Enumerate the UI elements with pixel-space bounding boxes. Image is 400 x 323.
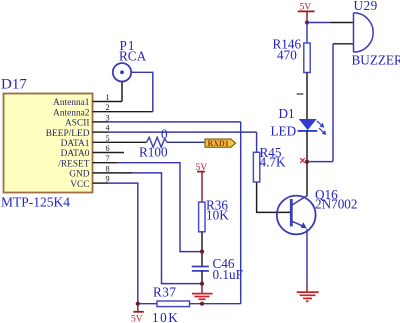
wire pin4 BEEP/LED horizontal bbox=[108, 131, 257, 133]
junction dot bottom wire at ground column bbox=[200, 302, 204, 306]
wire 5V node to R37 left bbox=[138, 303, 157, 305]
LED light emission arrows bbox=[317, 121, 327, 135]
pin 8 GND bbox=[69, 164, 132, 179]
svg-text:4.7K: 4.7K bbox=[260, 155, 286, 170]
junction dot LED/buzzer/drain node bbox=[305, 160, 309, 164]
resistor R100 zigzag bbox=[139, 137, 168, 159]
svg-text:4: 4 bbox=[106, 124, 110, 133]
svg-text:GND: GND bbox=[69, 170, 90, 180]
pin 4 BEEP/LED bbox=[46, 124, 110, 139]
junction dot 5V/buzzer/R146 bbox=[305, 20, 309, 24]
lead R45 bottom to Q16 base (black) bbox=[257, 182, 291, 212]
wire buzzer bottom column vertical bbox=[332, 44, 334, 162]
wire bottom right of R37 bbox=[190, 303, 241, 305]
svg-text:DATA1: DATA1 bbox=[61, 139, 90, 149]
svg-text:1: 1 bbox=[106, 93, 110, 102]
resistor R36 body bbox=[199, 198, 229, 232]
svg-text:/RESET: /RESET bbox=[58, 159, 90, 169]
buzzer top pin (black) bbox=[330, 22, 354, 24]
diode D1 LED symbol bbox=[271, 106, 318, 139]
pin 1 Antenna1 bbox=[53, 93, 122, 108]
pin 7 /RESET bbox=[58, 154, 117, 169]
svg-text:3: 3 bbox=[106, 113, 110, 122]
power 5V mid (for R36) bbox=[196, 162, 208, 202]
svg-text:9: 9 bbox=[106, 175, 110, 184]
svg-text:0: 0 bbox=[161, 127, 168, 142]
pin 9 VCC bbox=[70, 175, 109, 190]
no-ERC marker (red cross) bbox=[300, 158, 305, 163]
buzzer U29 symbol bbox=[352, 0, 400, 68]
svg-text:D1: D1 bbox=[279, 106, 295, 121]
junction dot /RESET node bbox=[200, 250, 204, 254]
transistor Q16 bbox=[277, 187, 358, 234]
svg-text:2N7002: 2N7002 bbox=[315, 197, 358, 212]
svg-text:5: 5 bbox=[106, 134, 110, 143]
wire pin3 vertical down to bottom bbox=[240, 122, 242, 304]
wire pin4 down to R45 bbox=[256, 132, 258, 152]
lead R146 bottom to LED anode (black) bbox=[306, 73, 308, 120]
wire 5V node to buzzer top pin bbox=[307, 22, 330, 24]
net label RXD1 flag bbox=[205, 139, 236, 148]
svg-text:0.1uF: 0.1uF bbox=[213, 267, 243, 282]
wire pin3 ASCII horizontal bbox=[108, 121, 241, 123]
wire Q16 emitter down to ground bbox=[306, 229, 308, 285]
svg-text:6: 6 bbox=[106, 144, 110, 153]
capacitor C46 bbox=[192, 256, 235, 271]
pin 2 Antenna2 bbox=[53, 103, 153, 118]
svg-text:LED: LED bbox=[271, 124, 297, 139]
resistor R146 body bbox=[273, 36, 311, 72]
svg-text:470: 470 bbox=[277, 48, 297, 63]
pin 6 DATA0 (unconnected stub) bbox=[61, 144, 124, 159]
wire 5V node down to R146 bbox=[306, 23, 308, 44]
ground symbol under Q16 bbox=[297, 285, 319, 302]
svg-text:BUZZER: BUZZER bbox=[352, 53, 400, 68]
svg-text:BEEP/LED: BEEP/LED bbox=[46, 129, 90, 139]
svg-text:U29: U29 bbox=[354, 0, 378, 13]
svg-text:7: 7 bbox=[106, 154, 110, 163]
power 5V bottom left bbox=[131, 304, 144, 323]
ground symbol under C46 bbox=[192, 284, 213, 300]
wire pin2 to RCA right side bbox=[132, 72, 153, 111]
lead R36 bottom to C46 top (black) bbox=[201, 232, 203, 266]
svg-text:8: 8 bbox=[106, 164, 110, 173]
wire pin9 VCC down to 5V node bbox=[108, 183, 138, 304]
lead C46 bottom to ground node (black) bbox=[201, 271, 203, 284]
wire pin1 to RCA (black) bbox=[121, 82, 123, 102]
wire node to buzzer bottom column bbox=[307, 161, 333, 163]
svg-text:Antenna2: Antenna2 bbox=[53, 108, 90, 118]
junction dot ground node bbox=[200, 282, 204, 286]
svg-text:R100: R100 bbox=[139, 145, 168, 160]
connector P1 RCA jack bbox=[113, 38, 147, 82]
junction dot VCC/5V/R37 bbox=[136, 302, 140, 306]
wire R100 to RXD1 flag bbox=[167, 141, 205, 143]
chip D17 body bbox=[4, 94, 93, 193]
svg-text:10K: 10K bbox=[152, 310, 179, 323]
svg-text:R37: R37 bbox=[153, 285, 176, 300]
small tick on R146-LED lead bbox=[297, 93, 304, 95]
resistor R37 body bbox=[153, 285, 190, 307]
wire pin8 GND to ground node bbox=[132, 173, 202, 284]
svg-text:RXD1: RXD1 bbox=[208, 139, 229, 148]
pin 5 DATA1 bbox=[61, 134, 147, 149]
svg-text:VCC: VCC bbox=[70, 180, 89, 190]
svg-text:D17: D17 bbox=[1, 77, 27, 93]
pin 3 ASCII bbox=[65, 113, 110, 128]
lead LED cathode down to drain node (black) bbox=[306, 131, 308, 162]
svg-text:MTP-125K4: MTP-125K4 bbox=[1, 195, 70, 210]
svg-text:2: 2 bbox=[106, 103, 110, 112]
svg-text:RCA: RCA bbox=[119, 49, 147, 64]
svg-text:Antenna1: Antenna1 bbox=[53, 98, 90, 108]
svg-text:5V: 5V bbox=[131, 314, 143, 323]
svg-text:DATA0: DATA0 bbox=[61, 149, 90, 159]
wire drain node down to Q16 collector (black) bbox=[306, 162, 308, 197]
svg-text:10K: 10K bbox=[206, 207, 229, 222]
svg-text:ASCII: ASCII bbox=[65, 119, 89, 129]
power 5V top right bbox=[298, 2, 315, 23]
wire pin7 /RESET to RC node bbox=[117, 163, 202, 252]
buzzer bottom pin (black) bbox=[333, 43, 354, 45]
resistor R45 body bbox=[253, 145, 281, 182]
